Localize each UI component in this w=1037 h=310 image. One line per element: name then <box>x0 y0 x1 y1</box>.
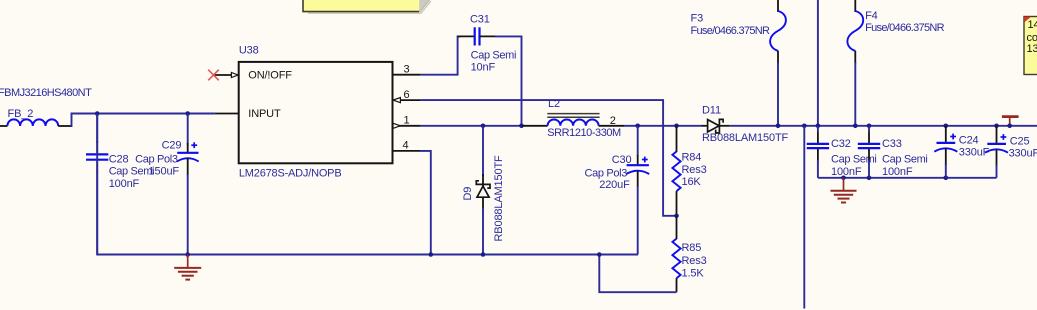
capacitor C24 lower lead <box>945 149 947 166</box>
capacitor C33 plates <box>858 144 880 148</box>
inductor L2 left lead <box>523 125 548 127</box>
wire long vertical drop <box>803 126 805 309</box>
svg-text:Cap Semi: Cap Semi <box>882 154 928 166</box>
capacitor C30 top plate <box>627 164 649 166</box>
note (top center, folded corner) <box>303 0 431 13</box>
svg-text:Fuse/0466.375NR: Fuse/0466.375NR <box>691 25 771 37</box>
svg-text:U38: U38 <box>239 45 259 57</box>
wire D9 branch lower <box>482 208 484 255</box>
capacitor C31 plates <box>475 27 480 45</box>
svg-text:16K: 16K <box>682 176 702 188</box>
svg-text:13: 13 <box>1027 43 1037 55</box>
svg-text:3: 3 <box>404 63 410 75</box>
svg-text:RB088LAM150TF: RB088LAM150TF <box>702 132 789 144</box>
diode D11 (schottky, pointing right) <box>702 119 730 133</box>
svg-text:C28: C28 <box>109 153 129 165</box>
svg-text:D11: D11 <box>702 104 721 116</box>
svg-text:1: 1 <box>404 115 410 127</box>
wire C33 branch lower <box>868 160 870 178</box>
wire C30 branch lower <box>637 186 639 255</box>
wire decoupling ground rail <box>818 177 997 179</box>
wire F4 to output line <box>854 63 856 126</box>
resistor R84 upper lead <box>676 126 678 152</box>
wire pin3 to C31 <box>420 36 461 74</box>
diode D9 (schottky, pointing up) <box>476 174 490 209</box>
wire C28 branch lower <box>96 171 98 255</box>
svg-text:Res3: Res3 <box>682 164 707 176</box>
svg-text:R85: R85 <box>682 242 702 254</box>
junction node C33 bottom <box>867 176 872 181</box>
capacitor C29 upper lead <box>187 143 189 152</box>
capacitor C28 lower lead <box>96 161 98 172</box>
resistor R84 lower lead <box>676 191 678 216</box>
junction node at C29 branch <box>185 111 190 116</box>
junction node power port <box>1007 124 1012 129</box>
fuse F4 top lead <box>854 0 856 12</box>
junction node C24 top <box>944 124 949 129</box>
capacitor C28 upper lead <box>96 141 98 154</box>
capacitor C29 top plate <box>177 152 198 154</box>
junction node C33 top <box>867 124 872 129</box>
wire C31 to output node <box>495 36 521 125</box>
wire pin6 feedback <box>420 100 677 216</box>
svg-text:SRR1210-330M: SRR1210-330M <box>547 127 621 139</box>
capacitor C30 lower lead <box>637 171 639 187</box>
fuse F4 body <box>847 11 863 51</box>
svg-text:C30: C30 <box>612 154 632 166</box>
fuse F3 top lead <box>777 0 779 12</box>
capacitor C24 upper lead <box>945 126 947 143</box>
wire C32 branch lower <box>817 160 819 178</box>
capacitor C32 upper lead <box>817 131 819 143</box>
capacitor C24 plus sign <box>950 134 956 140</box>
svg-text:R84: R84 <box>682 151 702 163</box>
svg-text:14: 14 <box>1028 19 1037 31</box>
wire D9 branch upper <box>482 126 484 176</box>
resistor R85 zigzag <box>672 239 680 279</box>
fuse F3 bottom lead <box>777 51 779 64</box>
pin 4 of U38 <box>393 150 421 152</box>
wire C29 branch lower <box>187 174 189 255</box>
pin ON/!OFF of U38 <box>214 74 239 76</box>
wire pin4 to ground rail <box>420 151 431 255</box>
svg-text:C32: C32 <box>831 138 851 150</box>
capacitor C32 lower lead <box>817 149 819 161</box>
svg-text:2: 2 <box>610 115 616 127</box>
svg-text:FB_2: FB_2 <box>8 108 34 120</box>
svg-text:Cap Pol3: Cap Pol3 <box>135 153 178 165</box>
pin 3 of U38 <box>393 74 421 76</box>
svg-text:C24: C24 <box>959 135 979 147</box>
capacitor C33 lower lead <box>868 149 870 161</box>
capacitor C29 lower lead <box>187 158 189 175</box>
svg-text:100nF: 100nF <box>882 166 913 178</box>
capacitor C31 right lead <box>480 35 497 37</box>
resistor R85 lower lead <box>676 278 678 292</box>
ferrite bead FB_2 coil <box>7 119 58 126</box>
wire D11 to right edge <box>730 125 1037 127</box>
capacitor C25 upper lead <box>996 126 998 144</box>
op-amp regulator U38 box <box>239 62 393 163</box>
wire C24 branch lower <box>945 164 947 178</box>
svg-text:L2: L2 <box>548 98 560 110</box>
capacitor C30 upper lead <box>637 155 639 165</box>
svg-text:6: 6 <box>404 89 410 101</box>
pin 1 of U38 (output arrow) <box>393 125 421 127</box>
inductor L2 right lead <box>599 125 625 127</box>
wire C28 branch upper <box>96 114 98 144</box>
inductor L2 coil <box>548 119 599 125</box>
svg-text:Res3: Res3 <box>682 255 707 267</box>
junction node long drop <box>802 124 807 129</box>
resistor R85 upper lead <box>676 216 678 239</box>
inductor L2 core bars <box>547 114 599 118</box>
junction node pin4 drop <box>429 252 434 257</box>
junction node C32 <box>816 124 821 129</box>
svg-text:4: 4 <box>403 140 409 152</box>
svg-text:Cap Pol3: Cap Pol3 <box>585 167 628 179</box>
capacitor C24 top plate <box>937 142 956 144</box>
capacitor C28 plates <box>86 154 108 159</box>
svg-text:F3: F3 <box>691 13 704 25</box>
svg-text:330uF: 330uF <box>1009 147 1037 159</box>
junction node feedback divider <box>674 214 679 219</box>
wire pin1 output segment <box>420 125 524 127</box>
svg-text:RB088LAM150TF: RB088LAM150TF <box>493 155 505 242</box>
svg-text:100nF: 100nF <box>109 178 140 190</box>
wire C29 branch upper <box>187 114 189 146</box>
svg-text:Fuse/0466.375NR: Fuse/0466.375NR <box>865 22 945 34</box>
wire C30 branch upper <box>637 126 639 156</box>
junction node F4 <box>853 124 858 129</box>
junction node ground tap <box>841 176 846 181</box>
fuse F4 bottom lead <box>854 51 856 64</box>
pin 6 of U38 (input arrow) <box>393 99 421 101</box>
junction node C30 branch <box>635 124 640 129</box>
junction node at C28 branch <box>95 111 100 116</box>
capacitor C30 plus sign <box>642 157 648 163</box>
ferrite bead FB_2 right pin <box>58 125 71 127</box>
svg-text:LM2678S-ADJ/NOPB: LM2678S-ADJ/NOPB <box>239 168 342 180</box>
capacitor C29 plus sign <box>191 142 197 148</box>
svg-text:Cap Semi: Cap Semi <box>109 166 155 178</box>
junction node C31 return <box>519 124 524 129</box>
svg-text:10nF: 10nF <box>471 62 496 74</box>
capacitor C31 left lead <box>458 35 475 37</box>
junction node F3 <box>776 124 781 129</box>
capacitor C33 upper lead <box>868 131 870 143</box>
svg-text:FBMJ3216HS480NT: FBMJ3216HS480NT <box>0 87 92 99</box>
power port bar (VCC rail) <box>1002 117 1019 126</box>
svg-text:Cap Semi: Cap Semi <box>471 50 516 62</box>
svg-text:ON/!OFF: ON/!OFF <box>248 69 292 81</box>
junction node R85 return <box>597 252 602 257</box>
resistor R84 zigzag <box>672 152 680 192</box>
capacitor C25 top plate <box>987 143 1006 145</box>
svg-text:1.5K: 1.5K <box>682 268 705 280</box>
svg-text:220uF: 220uF <box>599 179 630 191</box>
svg-text:D9: D9 <box>462 187 474 201</box>
junction node D9 bottom <box>481 252 486 257</box>
svg-text:C25: C25 <box>1010 136 1030 148</box>
fuse F3 body <box>770 11 786 51</box>
capacitor C24 bottom plate arc <box>934 148 957 151</box>
wire main ground rail <box>97 114 638 255</box>
wire C25 branch lower <box>996 165 998 178</box>
capacitor C29 bottom plate arc <box>177 158 199 161</box>
svg-text:F4: F4 <box>865 10 878 22</box>
ferrite bead FB_2 left pin <box>0 125 7 127</box>
capacitor C25 bottom plate arc <box>985 149 1008 152</box>
junction node ground symbol tap <box>185 252 190 257</box>
wire top vertical into C32 node <box>817 0 819 126</box>
capacitor C30 bottom plate arc <box>626 171 649 174</box>
wire F3 to output line <box>777 63 779 126</box>
capacitor C32 plates <box>807 144 829 148</box>
capacitor C25 lower lead <box>996 150 998 167</box>
junction node C24 bottom <box>944 176 949 181</box>
no-connect X on ON/!OFF pin <box>208 70 219 81</box>
wire FB_2 to INPUT pin <box>71 114 215 127</box>
ground symbol (main) <box>174 255 201 280</box>
svg-text:C31: C31 <box>470 14 490 26</box>
svg-text:100nF: 100nF <box>831 166 862 178</box>
ground symbol (decoupling) <box>831 178 857 203</box>
svg-text:C29: C29 <box>162 139 182 151</box>
pin INPUT of U38 <box>215 113 239 115</box>
wire R85 to ground rail <box>599 255 676 293</box>
svg-text:INPUT: INPUT <box>248 108 281 120</box>
junction node C25 top <box>994 124 999 129</box>
capacitor C25 plus sign <box>1001 134 1007 140</box>
wire L2 to D11 <box>625 125 702 127</box>
junction node R84 branch <box>674 124 679 129</box>
svg-text:C33: C33 <box>882 138 902 150</box>
svg-text:150uF: 150uF <box>149 166 180 178</box>
junction node D9 branch <box>481 124 486 129</box>
note (top right, with red marker and text) <box>1024 17 1037 75</box>
